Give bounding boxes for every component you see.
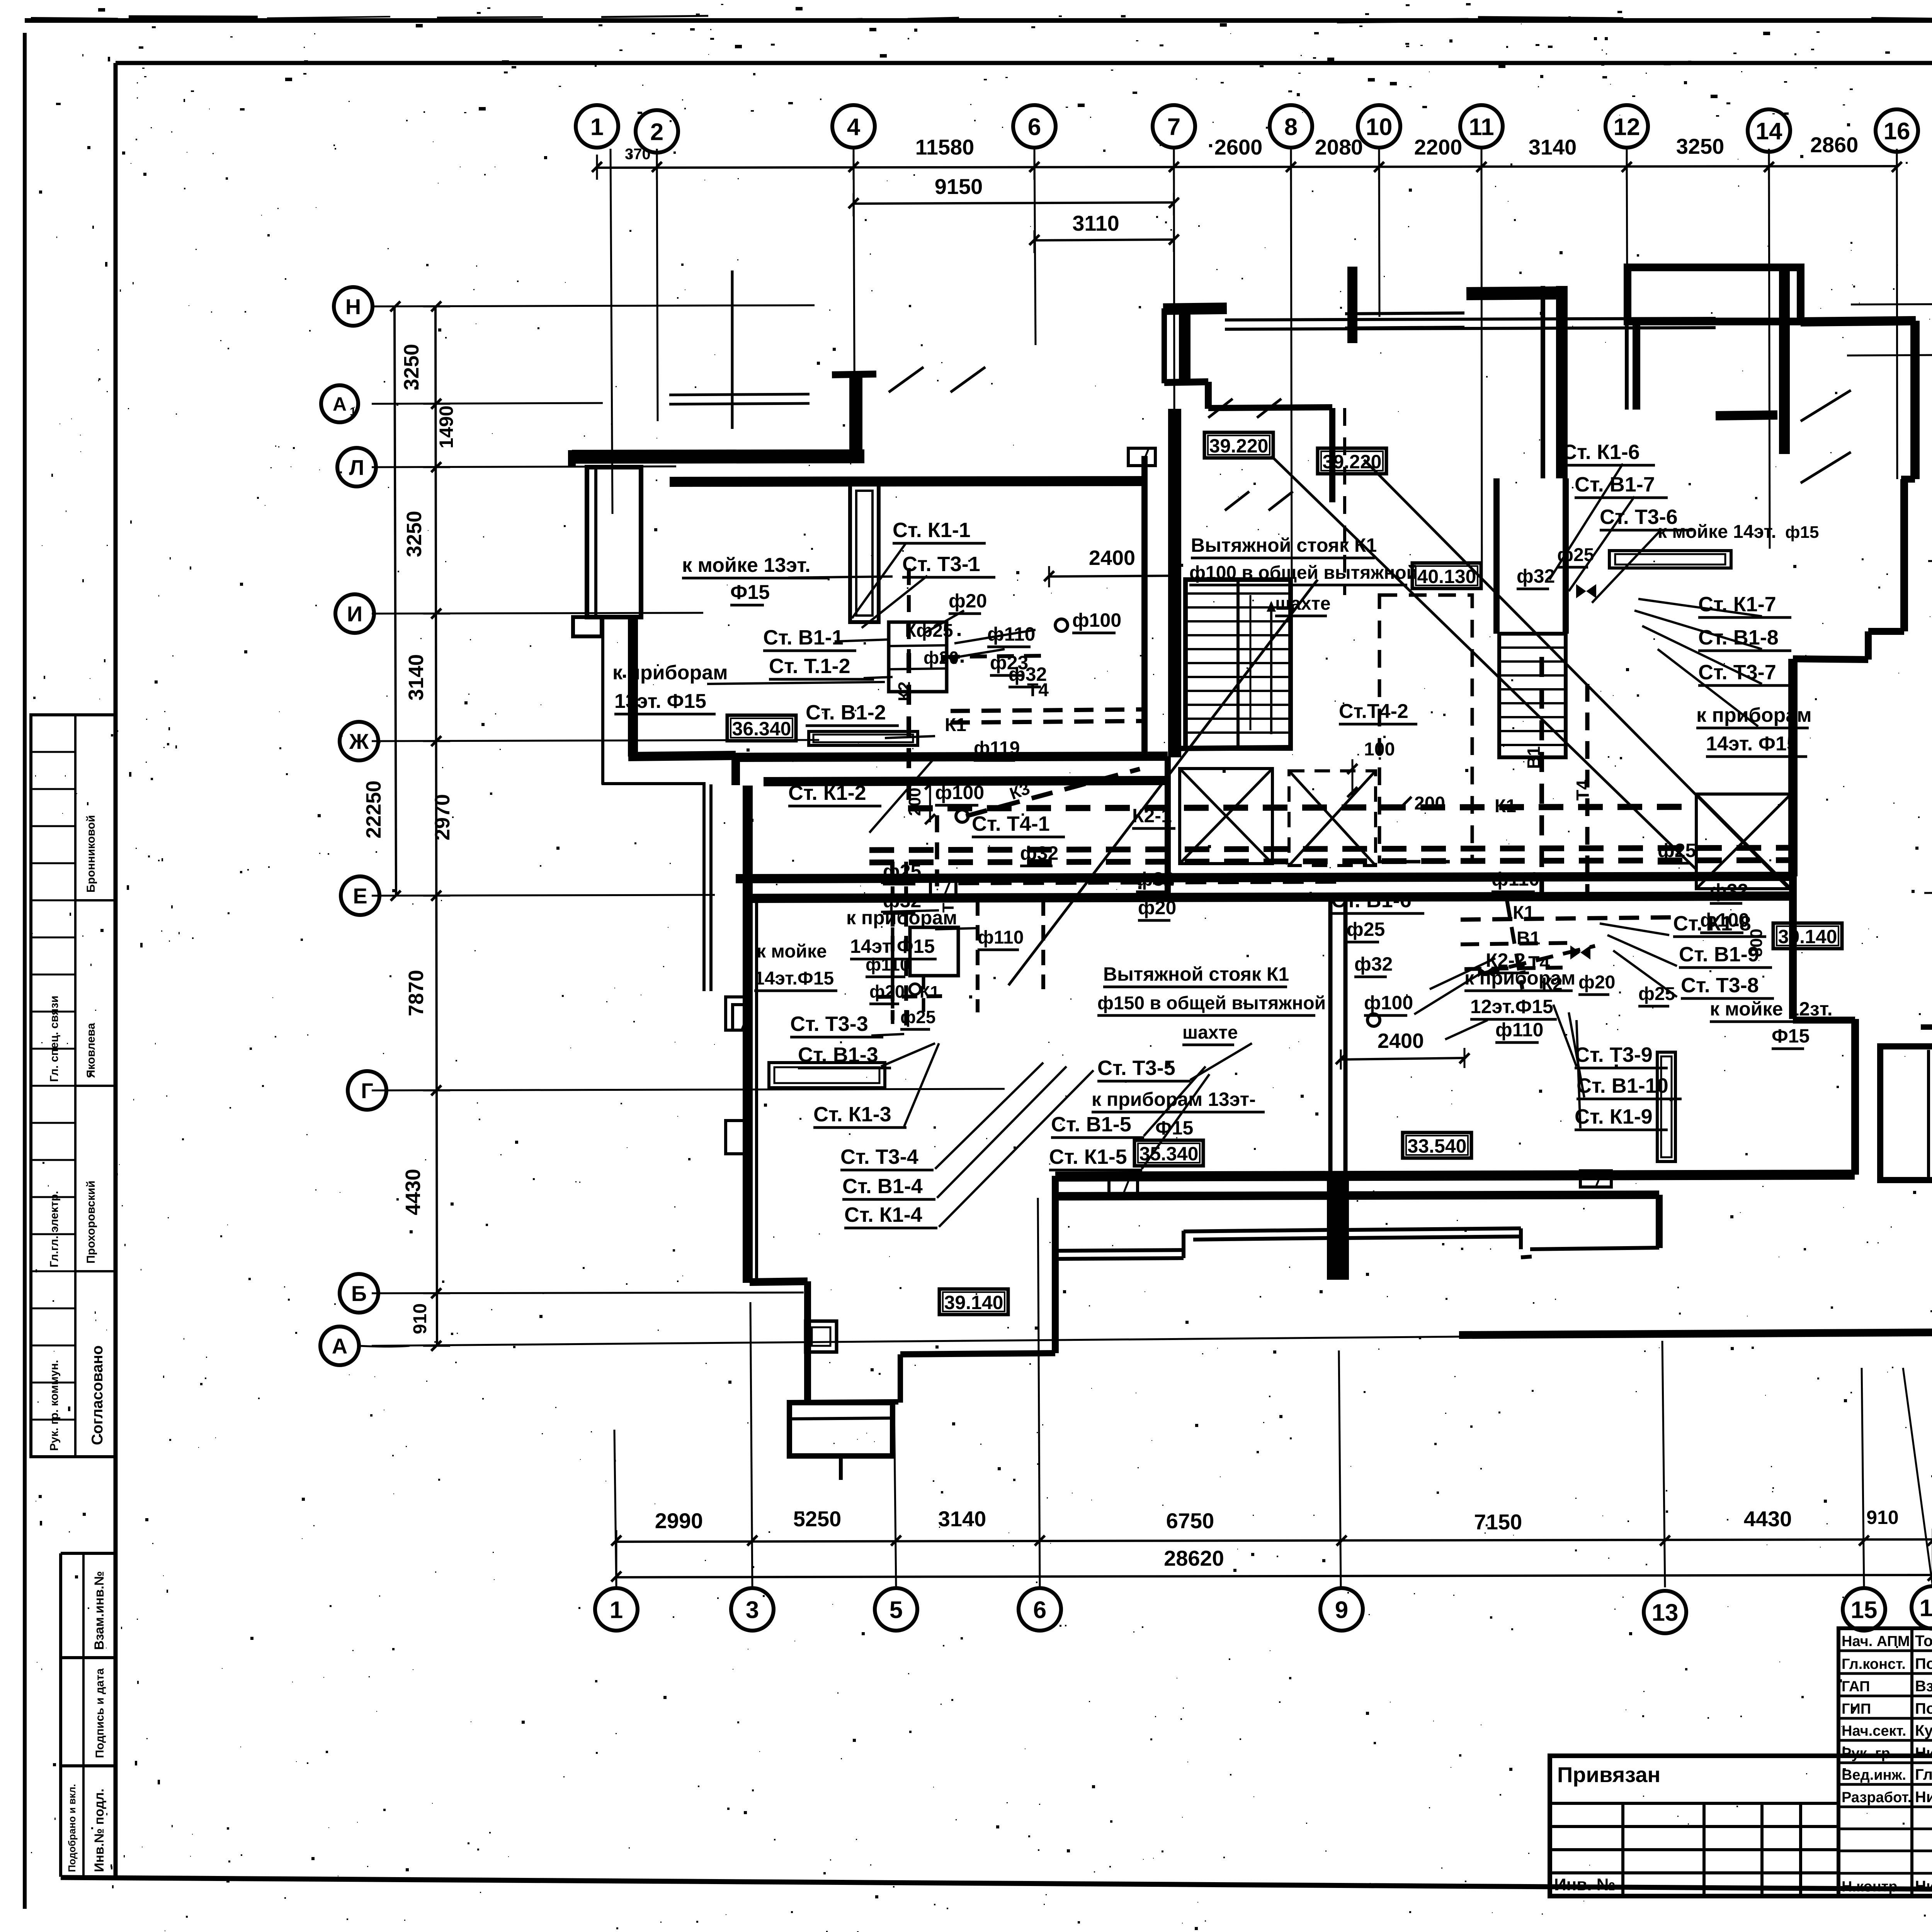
LL block left wall inner line — [755, 898, 758, 1281]
svg-text:ф20: ф20 — [1578, 972, 1615, 993]
svg-text:2400: 2400 — [1089, 546, 1135, 570]
svg-text:шахте: шахте — [1182, 1022, 1238, 1043]
axis line 9 bottom — [1339, 1350, 1341, 1587]
noise speckles — [1741, 71, 1742, 72]
svg-text:13: 13 — [1652, 1599, 1679, 1626]
tower top wall left seg — [1163, 308, 1227, 309]
door diagonals above UL — [889, 367, 923, 392]
svg-text:16: 16 — [1884, 118, 1910, 145]
svg-text:14эт.Ф15: 14эт.Ф15 — [754, 968, 834, 989]
svg-text:Рук. гр.: Рук. гр. — [1842, 1745, 1894, 1762]
svg-text:ГИП: ГИП — [1842, 1701, 1871, 1717]
pipe vertical K2 UL — [906, 653, 911, 808]
right wing east wall lower — [1788, 659, 1798, 876]
svg-text:ф110: ф110 — [978, 927, 1024, 948]
svg-text:Ст. К1-3: Ст. К1-3 — [813, 1103, 891, 1126]
svg-text:Ст. Т3-5: Ст. Т3-5 — [1097, 1056, 1175, 1080]
svg-text:5: 5 — [889, 1597, 903, 1623]
leader lines — [788, 577, 893, 578]
axis line 1 top — [611, 149, 612, 514]
svg-text:Николаенко: Николаенко — [1915, 1789, 1932, 1806]
svg-text:39.220: 39.220 — [1209, 435, 1269, 457]
svg-text:3250: 3250 — [1676, 134, 1725, 158]
svg-text:Ст. Т3-4: Ст. Т3-4 — [840, 1145, 918, 1168]
svg-text:Бронниковой: Бронниковой — [85, 815, 97, 893]
grid circle I left — [335, 594, 374, 633]
long diagonal leader 2 — [1271, 456, 1696, 869]
svg-text:ф110: ф110 — [1492, 868, 1539, 890]
svg-text:2860: 2860 — [1810, 133, 1859, 157]
corridor wall below protrusion — [1633, 321, 1640, 410]
svg-text:Ст. К1-2: Ст. К1-2 — [788, 781, 866, 804]
LL stub tail — [839, 1456, 843, 1480]
tall window UL — [850, 484, 879, 622]
svg-text:14эт. Ф15: 14эт. Ф15 — [1706, 733, 1798, 755]
pipe verticals mid lower — [1041, 900, 1045, 989]
axis line 1 bottom — [614, 1430, 616, 1587]
svg-text:3140: 3140 — [1529, 135, 1577, 159]
right wing top stub lower — [1921, 1024, 1932, 1030]
grid circle 10 top — [1358, 105, 1400, 148]
svg-text:ф110: ф110 — [1495, 1019, 1543, 1041]
tower left wall notch — [1164, 382, 1208, 383]
left margin stamp column lower — [59, 1553, 62, 1877]
axis line L left — [372, 466, 676, 467]
grid circle 12 top — [1605, 105, 1648, 148]
grid circle 4 top — [832, 105, 875, 148]
svg-text:ф150 в общей вытяжной: ф150 в общей вытяжной — [1097, 993, 1326, 1014]
window bay rects on LL left wall — [726, 997, 750, 1030]
svg-text:Подпись и дата: Подпись и дата — [94, 1668, 106, 1758]
svg-text:3250: 3250 — [400, 344, 423, 390]
svg-text:12эт.Ф15: 12эт.Ф15 — [1470, 996, 1553, 1017]
svg-text:Ст. В1-10: Ст. В1-10 — [1577, 1074, 1668, 1097]
inner frame — [116, 61, 1932, 65]
LL right wall — [1052, 1176, 1059, 1353]
svg-text:3140: 3140 — [938, 1507, 986, 1531]
stair A arrow — [1270, 603, 1272, 734]
svg-text:5250: 5250 — [793, 1507, 842, 1531]
pipe left bundle lower — [877, 996, 943, 997]
svg-text:1: 1 — [590, 114, 604, 140]
svg-text:Ж: Ж — [349, 729, 369, 753]
LL bottom jog — [750, 1281, 808, 1282]
svg-text:910: 910 — [410, 1303, 430, 1334]
svg-text:к мойке 12зт.: к мойке 12зт. — [1710, 998, 1833, 1020]
grid circle A1 left — [321, 385, 358, 422]
svg-text:14: 14 — [1756, 118, 1782, 145]
svg-text:7: 7 — [1167, 114, 1180, 140]
svg-text:В1: В1 — [1524, 746, 1544, 769]
axis line 6 top — [1034, 149, 1036, 345]
LL bottom stub block — [789, 1403, 893, 1456]
UR inner wall верх — [1625, 321, 1629, 410]
axis line 8 top — [1291, 149, 1292, 580]
svg-text:3: 3 — [746, 1597, 759, 1623]
thin wall line x1895 — [731, 270, 734, 429]
svg-text:14эт Ф15: 14эт Ф15 — [850, 935, 935, 957]
top main dimension line — [597, 166, 1897, 168]
svg-text:Подобрано и вкл.: Подобрано и вкл. — [66, 1784, 78, 1872]
UL right wall — [1141, 456, 1148, 758]
axis line 16 bottom — [1903, 1368, 1932, 1587]
top-right protrusion — [1628, 267, 1801, 321]
top dim line 3110 — [1034, 240, 1174, 240]
svg-text:11: 11 — [1469, 114, 1494, 140]
shaft pillar axis9 — [1328, 1177, 1348, 1279]
axis line I left — [372, 613, 703, 614]
svg-text:ф32: ф32 — [1020, 842, 1058, 864]
svg-text:ф32: ф32 — [1009, 663, 1047, 685]
svg-text:Ст. К1-4: Ст. К1-4 — [844, 1203, 922, 1226]
grid circle 13 bottom — [1644, 1591, 1686, 1633]
axis line 11 top — [1481, 149, 1482, 580]
pipe diagonal K3 — [966, 769, 1140, 816]
level box 39.140 right — [1773, 923, 1842, 949]
tall rect lower right — [1657, 1052, 1675, 1162]
svg-text:Нач.сект.: Нач.сект. — [1842, 1723, 1906, 1739]
svg-text:2970: 2970 — [431, 794, 454, 840]
svg-text:39.220: 39.220 — [1323, 451, 1382, 473]
grid circle 3 bottom — [731, 1588, 774, 1631]
svg-text:шахте: шахте — [1275, 594, 1331, 614]
svg-text:Ст. Т3-8: Ст. Т3-8 — [1681, 974, 1759, 997]
svg-text:4430: 4430 — [1744, 1507, 1792, 1531]
dim 200 vertical UL — [929, 781, 931, 822]
svg-text:Согласовано: Согласовано — [89, 1345, 106, 1445]
svg-text:Прохоровский: Прохоровский — [85, 1180, 97, 1264]
svg-text:Гл.конст.: Гл.конст. — [1842, 1656, 1906, 1672]
stair B outline — [1499, 634, 1566, 757]
grid circle G left — [348, 1071, 386, 1110]
svg-text:39.140: 39.140 — [944, 1292, 1003, 1313]
svg-text:К1: К1 — [1513, 903, 1534, 923]
svg-text:К2-1: К2-1 — [1132, 805, 1172, 827]
bottom band step walls — [1055, 1250, 1184, 1251]
axis line 16 top — [1897, 149, 1897, 479]
LL pipe fixture cluster — [910, 927, 958, 976]
X-shaft box 2 — [1289, 771, 1376, 866]
svg-text:Главко: Главко — [1915, 1766, 1932, 1783]
svg-text:6: 6 — [1028, 114, 1041, 140]
svg-text:А: А — [332, 1334, 347, 1358]
svg-text:40.130: 40.130 — [1417, 566, 1476, 587]
svg-text:И: И — [347, 602, 362, 626]
svg-text:2200: 2200 — [1414, 135, 1463, 159]
axis line B left — [372, 1293, 804, 1293]
svg-text:ф100: ф100 — [1072, 609, 1121, 631]
leader arc circle A left — [359, 1346, 410, 1347]
pipe run B1 horizontal — [869, 848, 1793, 850]
UL left wall lower — [628, 617, 638, 757]
corridor E lower wall — [750, 896, 1793, 898]
LL block left wall — [743, 786, 753, 1283]
svg-text:Нач. АПМ: Нач. АПМ — [1842, 1633, 1910, 1650]
svg-text:Ст. В1-3: Ст. В1-3 — [798, 1043, 878, 1066]
svg-text:Т4: Т4 — [1573, 780, 1593, 801]
pipe diag lower — [1482, 946, 1595, 974]
svg-text:Рук. гр. коммун.: Рук. гр. коммун. — [48, 1360, 61, 1451]
svg-text:2990: 2990 — [655, 1509, 703, 1533]
grid circle 1 bottom — [595, 1588, 638, 1631]
svg-text:Вытяжной стояк К1: Вытяжной стояк К1 — [1103, 963, 1289, 985]
UL bay bottom stub — [573, 617, 602, 636]
left main dimension line — [435, 306, 437, 1346]
fixture cluster lines — [889, 645, 947, 646]
svg-text:К1: К1 — [920, 983, 939, 1002]
svg-text:ф32: ф32 — [1517, 565, 1555, 587]
svg-text:ф20: ф20 — [869, 981, 905, 1002]
axis line 13 bottom — [1662, 1341, 1665, 1587]
wall above tower top — [1347, 267, 1357, 343]
svg-text:36.340: 36.340 — [732, 718, 791, 740]
svg-text:Купырев: Купырев — [1915, 1722, 1932, 1739]
top dim line 9150 — [854, 202, 1174, 204]
svg-text:10: 10 — [1366, 114, 1393, 140]
grid circle B left — [340, 1274, 378, 1313]
bottom band step walls right — [1348, 1228, 1521, 1230]
tower right wall — [1541, 286, 1545, 478]
pipe run T4 horizontal — [869, 860, 1793, 862]
axis line 3 bottom — [750, 1302, 752, 1587]
long diagonal leader 1 — [1009, 580, 1318, 985]
svg-text:Ст. К1-6: Ст. К1-6 — [1562, 440, 1640, 464]
svg-text:Толстищев: Толстищев — [1915, 1633, 1932, 1650]
svg-text:3250: 3250 — [403, 511, 426, 557]
svg-text:6: 6 — [1033, 1597, 1046, 1623]
axis line A left bottom — [372, 1334, 1789, 1346]
svg-text:910: 910 — [1866, 1507, 1898, 1528]
left outer dimension line 22250 — [395, 306, 396, 896]
svg-text:Инв.№ подл.: Инв.№ подл. — [92, 1789, 107, 1872]
bottom dimension line 1 — [616, 1539, 1932, 1542]
svg-text:ф32: ф32 — [1710, 880, 1748, 901]
LL outer thin pair — [702, 784, 706, 991]
grid circle 14 top — [1748, 109, 1790, 152]
bowtie valves — [1576, 584, 1596, 598]
UL left bay window outline — [587, 467, 641, 617]
grid circle 6 bottom — [1019, 1588, 1061, 1631]
svg-text:Б: Б — [351, 1281, 367, 1306]
svg-text:1: 1 — [610, 1597, 623, 1623]
axis line 4 top — [854, 149, 855, 456]
right wing bottom balcony — [1880, 1046, 1932, 1180]
svg-text:ф25: ф25 — [1658, 840, 1696, 861]
svg-text:100: 100 — [1364, 739, 1395, 760]
svg-text:ф110: ф110 — [866, 954, 910, 975]
svg-text:ф15: ф15 — [1785, 523, 1819, 542]
shaft walls axis9 upper — [1328, 900, 1333, 1177]
sheet outer edge left — [23, 33, 27, 1909]
svg-text:Г: Г — [361, 1078, 373, 1103]
svg-text:Л: Л — [349, 455, 364, 480]
svg-text:3110: 3110 — [1072, 211, 1119, 235]
small circle phi100 upper — [1055, 619, 1068, 631]
tower inner top wall — [1345, 313, 1464, 314]
radiator UR — [1609, 551, 1731, 568]
X-shaft box 3 — [1696, 794, 1791, 889]
level box 39.220 #2 — [1318, 448, 1386, 474]
tower top wall right seg — [1466, 293, 1567, 294]
svg-text:Ф15: Ф15 — [1155, 1117, 1193, 1139]
bottom A wall — [1459, 1332, 1932, 1335]
svg-text:Гл. спец. связи: Гл. спец. связи — [48, 996, 61, 1082]
tower left wall main — [1168, 409, 1181, 757]
svg-text:ф25: ф25 — [1347, 918, 1385, 940]
bottom dimension line 2 (28620) — [616, 1575, 1932, 1577]
level box 33.540 — [1403, 1133, 1471, 1158]
pipe run extra corridor — [958, 881, 1337, 883]
svg-text:Ст. К1-1: Ст. К1-1 — [893, 519, 971, 542]
axis line G left — [372, 1089, 1005, 1090]
svg-text:Разработ.: Разработ. — [1842, 1789, 1912, 1806]
svg-text:3140: 3140 — [405, 654, 428, 701]
svg-text:к приборам 13эт-: к приборам 13эт- — [1092, 1088, 1256, 1110]
svg-text:2080: 2080 — [1315, 135, 1363, 159]
pipe vertical left bundle — [891, 862, 895, 1020]
svg-text:ф100 в общей вытяжной: ф100 в общей вытяжной — [1189, 563, 1418, 583]
left margin stamp table upper — [31, 715, 116, 1457]
svg-text:Ст. К1-9: Ст. К1-9 — [1575, 1105, 1653, 1128]
svg-text:Вытяжной стояк К1: Вытяжной стояк К1 — [1191, 534, 1377, 556]
svg-text:7870: 7870 — [405, 970, 428, 1016]
axis line Zh left — [372, 740, 819, 741]
right wing top wall — [1801, 321, 1916, 322]
grid circle 16 top — [1876, 109, 1918, 152]
stair B shaft walls — [1493, 478, 1500, 634]
svg-text:Ст. Т3-1: Ст. Т3-1 — [902, 553, 980, 576]
svg-text:200: 200 — [1414, 793, 1445, 814]
level box 39.140 lower left — [939, 1289, 1008, 1315]
svg-text:ф25: ф25 — [900, 1007, 935, 1027]
axis line 10 top — [1379, 149, 1379, 317]
grid circle 15 bottom — [1843, 1588, 1885, 1631]
UL bottom-left corner wall — [628, 755, 736, 757]
grid circle A left — [320, 1327, 359, 1365]
svg-text:к приборам: к приборам — [612, 662, 728, 684]
level box 39.220 #1 — [1204, 432, 1273, 458]
landing wall below stair A — [1177, 748, 1291, 748]
svg-text:Ф15: Ф15 — [1772, 1025, 1810, 1047]
svg-text:200: 200 — [905, 787, 924, 816]
svg-text:6750: 6750 — [1166, 1509, 1214, 1533]
door arcs right wing — [1801, 390, 1851, 421]
svg-text:Ст. В1-4: Ст. В1-4 — [842, 1175, 923, 1198]
svg-text:ф20: ф20 — [949, 590, 987, 612]
tower bottom walls — [1165, 756, 1171, 900]
upper corridor thin double above UL — [669, 394, 810, 395]
UL outer thin contour — [601, 618, 604, 784]
svg-text:Ст. Т3-9: Ст. Т3-9 — [1575, 1043, 1653, 1066]
svg-text:1490: 1490 — [435, 405, 457, 448]
tower inner room walls — [1329, 408, 1335, 502]
svg-text:Ф15: Ф15 — [730, 581, 770, 604]
svg-text:Вед.инж.: Вед.инж. — [1842, 1767, 1906, 1783]
X-shaft box 1 — [1180, 769, 1272, 864]
axis line 7 top — [1174, 149, 1175, 638]
pipe lower right run — [1461, 917, 1673, 920]
svg-text:Е: Е — [353, 884, 367, 908]
tower left wall upper — [1162, 308, 1167, 383]
svg-text:Ст. Т3-3: Ст. Т3-3 — [790, 1012, 868, 1036]
svg-text:Привязан: Привязан — [1557, 1762, 1660, 1787]
door arc lines upper — [1208, 399, 1233, 418]
svg-text:Н: Н — [345, 294, 361, 319]
axis line 12 top — [1627, 149, 1628, 406]
signature table — [1838, 1628, 1932, 1896]
grid circle 1 top — [576, 105, 618, 148]
dim 2400 upper — [1049, 576, 1175, 577]
svg-text:Николаенко: Николаенко — [1915, 1745, 1932, 1762]
LL bottom wall right part — [900, 1353, 1055, 1354]
axis line H left — [372, 305, 815, 306]
svg-text:ф32: ф32 — [1354, 953, 1393, 975]
svg-text:8: 8 — [1284, 114, 1298, 140]
svg-text:ф25: ф25 — [1638, 984, 1675, 1004]
svg-text:22250: 22250 — [362, 781, 385, 838]
svg-text:ф25: ф25 — [883, 861, 921, 882]
svg-text:2: 2 — [650, 119, 663, 145]
svg-text:Ст. Т4-1: Ст. Т4-1 — [972, 812, 1050, 835]
svg-text:Польщан: Польщан — [1915, 1655, 1932, 1672]
title block outer — [1550, 1756, 1932, 1896]
svg-text:Ст. К1-8: Ст. К1-8 — [1673, 912, 1751, 935]
level box 35.340 — [1134, 1140, 1203, 1166]
svg-text:К1: К1 — [1495, 796, 1516, 816]
svg-text:к мойке 13эт.: к мойке 13эт. — [682, 554, 811, 577]
grid circle 2 top — [636, 110, 678, 153]
svg-text:39.140: 39.140 — [1778, 926, 1837, 947]
axis line 6 bottom — [1038, 1198, 1040, 1587]
radiator UL — [809, 731, 918, 745]
grid circle 7 top — [1153, 105, 1195, 148]
svg-text:Ст. В1-8: Ст. В1-8 — [1698, 626, 1779, 649]
grid circle 6 top — [1013, 105, 1056, 148]
svg-text:Ст. В1-9: Ст. В1-9 — [1679, 943, 1759, 966]
dim 2400 lower right — [1341, 1058, 1464, 1060]
axis line 14 top — [1769, 149, 1770, 549]
svg-text:2600: 2600 — [1214, 135, 1263, 159]
svg-text:Помярцев: Помярцев — [1915, 1700, 1932, 1717]
svg-text:28620: 28620 — [1164, 1546, 1224, 1570]
svg-text:В1: В1 — [1517, 928, 1540, 949]
grid circle 16 bottom — [1912, 1586, 1932, 1629]
tower interior wall x4618 — [1779, 270, 1790, 454]
svg-text:Ст. Т.1-2: Ст. Т.1-2 — [769, 655, 850, 678]
svg-text:ГАП: ГАП — [1842, 1679, 1870, 1695]
radiator LL — [769, 1063, 885, 1088]
svg-text:Ст. К1-5: Ст. К1-5 — [1049, 1145, 1127, 1168]
svg-text:Ст. В1-2: Ст. В1-2 — [806, 701, 886, 724]
grid circle 5 bottom — [875, 1588, 917, 1631]
svg-text:Ст. В1-5: Ст. В1-5 — [1051, 1113, 1131, 1136]
bottom wing lower band — [1053, 1195, 1659, 1196]
axis line K right — [1928, 560, 1932, 561]
axis line M right — [1847, 354, 1932, 355]
svg-text:1: 1 — [350, 405, 356, 418]
level box 40.130 — [1412, 563, 1481, 588]
corridor E upper wall — [736, 876, 1793, 879]
upper pipes near UL fixture — [943, 656, 1043, 657]
pipe vertical K2 upper label line — [907, 568, 911, 653]
UL inner wall x2215 — [849, 376, 862, 456]
sheet outer edge top — [25, 18, 1932, 23]
pipe run K1 horizontal — [908, 807, 1696, 808]
right wing lower-right wall pieces — [1789, 876, 1797, 1019]
svg-text:Ст. В1-1: Ст. В1-1 — [763, 626, 844, 649]
svg-text:4: 4 — [847, 114, 861, 140]
wall UL top band — [572, 456, 864, 457]
